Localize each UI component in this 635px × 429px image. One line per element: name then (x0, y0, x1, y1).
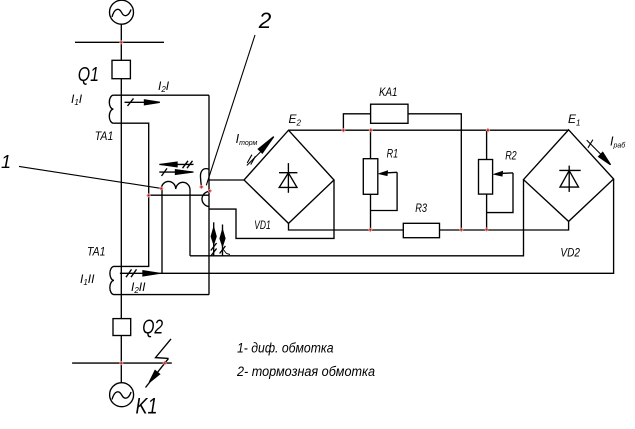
wire R1 bottom lead (370, 194, 372, 229)
braking winding 2 arcs (200, 169, 208, 187)
svg-text:1: 1 (1, 152, 11, 172)
breaker Q1 (112, 60, 130, 78)
differential winding 1 (161, 181, 190, 189)
wire VD1 left vertex (209, 179, 244, 181)
diode VD1 (279, 163, 297, 193)
wire braking vertical (208, 95, 210, 294)
svg-text:E1: E1 (568, 112, 580, 128)
wire TA1-I top lead (113, 94, 209, 96)
wire KA1 left lead (343, 114, 370, 130)
svg-text:I2I: I2I (158, 79, 170, 94)
current transformer TA1 (upper) secondary arcs (109, 95, 113, 123)
bus 1 (75, 41, 164, 43)
svg-text:VD1: VD1 (254, 220, 271, 232)
node KA1 right bottom (459, 227, 464, 232)
resistor R2 (479, 160, 493, 195)
current arrow I2II (126, 269, 159, 277)
wire long lower to VD2 right vertex (120, 179, 614, 273)
relay current arrows (pair) (211, 222, 230, 256)
svg-text:I1II: I1II (80, 272, 95, 287)
svg-text:Iторм: Iторм (236, 132, 258, 147)
pointer line 2 (206, 35, 255, 185)
node braking upper (199, 185, 204, 190)
svg-text:KA1: KA1 (379, 85, 398, 99)
svg-text:VD2: VD2 (560, 247, 580, 259)
node R2 bottom (484, 227, 489, 232)
arrow I rab (587, 140, 611, 165)
wire bottom rail left (289, 223, 404, 230)
wire top rail (289, 129, 569, 131)
node winding1 left (159, 186, 164, 191)
R1 wiper arrow and loop (371, 171, 398, 210)
svg-text:2: 2 (258, 8, 272, 33)
wire winding1 right to VD2 left vertex (190, 180, 524, 256)
wire winding1 left end down (161, 189, 163, 273)
resistor R3 (403, 223, 439, 237)
svg-text:K1: K1 (136, 393, 158, 418)
generator G top (110, 0, 134, 24)
fault lightning arrow K1 (146, 339, 172, 388)
svg-text:TA1: TA1 (95, 129, 114, 143)
wire R1 top lead (370, 130, 372, 159)
breaker Q2 (113, 319, 131, 336)
mmf arrow row 2 (159, 168, 193, 176)
wire bottom rail right (440, 221, 569, 230)
svg-text:1- диф. обмотка: 1- диф. обмотка (237, 341, 334, 356)
wire R2 bottom lead (486, 194, 488, 230)
svg-text:I1I: I1I (71, 92, 83, 107)
svg-text:R3: R3 (415, 201, 427, 215)
resistor R1 (363, 159, 378, 195)
svg-text:E2: E2 (289, 112, 302, 128)
wire winding1 right end down (189, 189, 191, 256)
node R1 bottom (368, 228, 373, 233)
diode VD2 (559, 166, 580, 192)
node A junction (146, 193, 151, 198)
wire gen to Q1 (120, 24, 122, 60)
current transformer TA1 (lower) secondary arcs (110, 266, 114, 294)
node rail R1 top (369, 128, 374, 133)
bus 2 (72, 362, 172, 364)
wire TA1-I bottom lead (113, 123, 148, 266)
wire Q2 to K1 (120, 336, 122, 383)
wire KA1 right lead (408, 114, 461, 230)
bus1 junction (119, 40, 124, 45)
rectifier bridge VD2 (524, 130, 614, 222)
svg-text:TA1: TA1 (87, 244, 106, 258)
relay KA1 (371, 104, 408, 123)
wire node A to braking winding (149, 194, 209, 196)
current arrow I2I (125, 98, 160, 106)
node bus2 fault (162, 361, 167, 366)
bus2 junction (119, 361, 124, 366)
rectifier bridge VD1 (244, 130, 334, 223)
node rail R2 top (486, 128, 491, 133)
svg-text:2- тормозная обмотка: 2- тормозная обмотка (236, 364, 375, 379)
node braking lower (207, 189, 212, 194)
arrow I torm (247, 137, 274, 166)
svg-text:Q1: Q1 (78, 64, 99, 86)
node rail KA1 left (341, 128, 346, 133)
svg-text:I2II: I2II (131, 280, 146, 295)
wire Q1 down (main feeder) (120, 79, 122, 319)
svg-text:R2: R2 (505, 149, 517, 163)
generator K1 (bottom) (110, 383, 134, 407)
wire R2 top lead (486, 130, 488, 159)
svg-text:R1: R1 (387, 147, 399, 161)
R2 wiper arrow and loop (487, 172, 513, 213)
wire braking bottom to VD1 right vertex (209, 180, 334, 238)
svg-text:Iраб: Iраб (610, 135, 626, 150)
pointer line 1 (19, 166, 161, 188)
wire TA1-II bottom lead (114, 294, 209, 296)
svg-text:Q2: Q2 (142, 316, 163, 338)
mmf arrow row 1 (159, 161, 193, 168)
